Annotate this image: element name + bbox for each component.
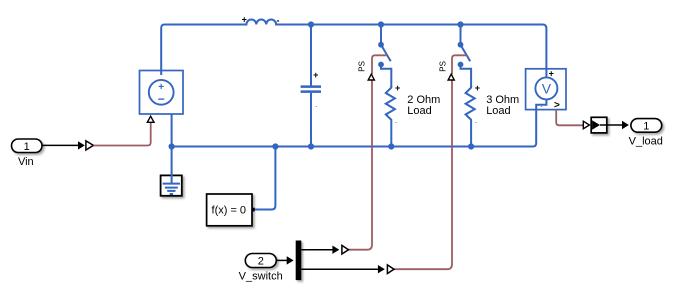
svg-text:V_load: V_load [629,136,663,148]
arrowhead into V_load [622,121,629,129]
svg-text:PS: PS [358,61,367,72]
wire: solver to bus [255,147,276,210]
resistor R2 zigzag [466,86,475,147]
switch S1 contact node [378,62,384,68]
wire: source bottom terminal to bus [171,114,173,147]
node: junction bus resistor1 [388,143,394,149]
svg-text:+: + [395,83,400,93]
switch S2 top wire [460,25,462,45]
wire: PS control of S2 (brown) from demux out2 up to blade [394,80,452,269]
svg-text:-: - [475,120,477,126]
signal wire demux out2 [301,268,378,270]
svg-text:f(x) = 0: f(x) = 0 [212,205,247,217]
resistor R1 zigzag [386,86,395,147]
svg-text:+: + [313,70,318,80]
voltmeter U2 symbol [535,77,557,99]
port: Simulink-PS converter triangle (out2) [387,265,394,274]
wire: switch S2 contact to resistor R2 [461,65,472,88]
arrowhead Vin signal [78,141,85,149]
inport V_switch [245,254,276,268]
port: PS triangle on switch S2 control [448,74,454,80]
node: junction top switch2 [457,21,463,27]
svg-text:V_switch: V_switch [239,270,283,282]
switch S1 top wire [380,25,382,45]
switch S2 contact node [458,62,464,68]
svg-text:-: - [315,104,317,110]
port: PS triangle into PS-Simulink converter [583,121,589,129]
switch S2 blade [461,45,471,62]
svg-text:-: - [277,16,280,26]
svg-text:-: - [395,120,397,126]
wire: switch S1 contact to resistor R1 [381,65,391,88]
capacitor C1 top wire [310,25,312,86]
node: junction top switch1 [378,21,384,27]
capacitor C1 bottom wire [310,93,312,147]
capacitor C1 plates [301,87,321,92]
svg-text:Vin: Vin [18,156,34,168]
node: junction bus source/ground [169,143,175,149]
port: Simulink-PS converter triangle (Vin) [86,141,94,150]
wire: Vin PS (brown) to source control [93,123,150,146]
svg-text:Load: Load [407,105,431,117]
node: junction top capacitor [308,21,314,27]
voltage source U1 box outline [140,71,184,115]
signal wire to V_load [607,124,623,126]
svg-text:1: 1 [643,120,649,132]
svg-text:PS: PS [438,61,447,72]
outport V_load [631,119,662,133]
svg-text:+: + [242,15,247,25]
svg-text:−: − [158,92,165,106]
node: junction bus solver [272,143,278,149]
svg-text:V: V [542,80,552,96]
node: junction bus capacitor [308,143,314,149]
PS-Simulink converter block [591,117,607,133]
switch S1 pivot node [378,42,384,48]
svg-text:1: 1 [24,141,30,153]
arrowhead out2 [378,265,385,273]
switch S1 blade [381,45,391,62]
signal wire V_switch to demux [276,259,287,261]
svg-text:Load: Load [486,105,510,117]
port: Simulink-PS converter triangle (out1) [342,245,349,254]
switch S2 pivot node [458,42,464,48]
solver block f(x)=0 [207,194,255,226]
wire: voltmeter PS output (brown) to converter [556,110,583,126]
demux bar [296,241,302,281]
wire: PS control of S1 (brown) from demux out1 up to blade [348,80,372,250]
inport Vin [12,139,43,153]
signal wire Vin [42,144,78,146]
svg-text:2: 2 [258,256,264,268]
wire: bottom bus with voltmeter return [172,99,547,146]
svg-text:+: + [549,69,554,79]
port: PS input triangle of source [147,116,154,122]
signal wire demux out1 [301,249,332,251]
svg-text:>: > [554,100,560,111]
wire: bus to ground [171,147,173,184]
ground block box outline [161,175,182,195]
svg-text:+: + [475,83,480,93]
port: PS triangle on switch S1 control [368,74,374,80]
wire: top bus from source top through inductor to voltmeter top [161,20,546,78]
voltage source U1 symbol [149,80,174,106]
ground block symbol [163,184,180,194]
voltmeter U2 box outline [526,69,566,110]
node: junction bus resistor2 [468,143,474,149]
arrowhead out1 [332,246,339,254]
arrowhead into demux [287,256,294,264]
